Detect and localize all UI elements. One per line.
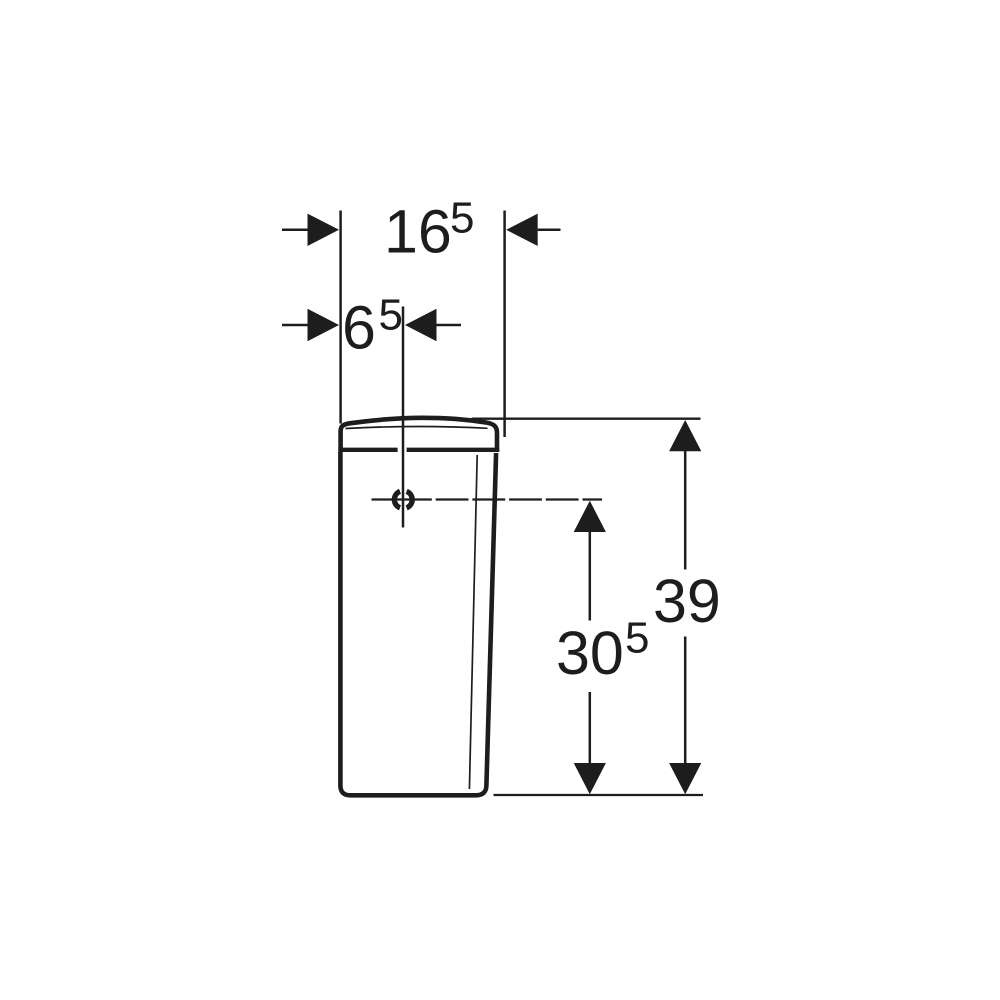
cistern body outline [340, 452, 496, 795]
dim 30.5: top arrowhead (up) [574, 501, 606, 532]
svg-text:5: 5 [450, 194, 474, 243]
dim 16.5: right arrowhead [506, 214, 538, 246]
cistern lid bottom edge right segment [407, 448, 500, 452]
svg-text:39: 39 [653, 567, 721, 635]
dim 6.5: left arrow tail [282, 324, 308, 327]
svg-text:5: 5 [379, 291, 403, 340]
dim 6.5: left arrowhead [308, 309, 340, 341]
dim 16.5: right arrow tail [538, 229, 561, 232]
hole centerline horizontal solid left part [372, 498, 400, 500]
hole centerline horizontal solid right part [584, 498, 603, 500]
svg-text:30: 30 [556, 619, 624, 687]
svg-text:16: 16 [384, 197, 452, 265]
dim 39: top arrowhead (up) [669, 420, 701, 451]
bottom reference baseline [494, 794, 704, 796]
supply hole circle (right arc) [407, 491, 413, 507]
dim 30.5: lower line segment [589, 692, 592, 765]
dim 39: upper line segment [684, 450, 687, 569]
hole centerline horizontal dashed middle [399, 498, 584, 500]
svg-text:6: 6 [342, 293, 376, 361]
svg-text:5: 5 [625, 614, 649, 663]
cistern lid bottom edge left segment [338, 448, 397, 452]
cistern body inner right contour [469, 455, 477, 789]
dim 6.5: right arrowhead [405, 309, 437, 341]
dim 39: bottom arrowhead (down) [669, 763, 701, 794]
extension line left (shared by 16.5 and 6.5) [339, 211, 342, 424]
dim 16.5: left arrow tail [282, 229, 308, 232]
cistern lid outline [341, 418, 497, 452]
supply hole circle (left arc) [394, 491, 400, 507]
dim 30.5: bottom arrowhead (down) [574, 763, 606, 794]
extension line right of 16.5 [503, 211, 506, 438]
dim 30.5: upper line segment [589, 531, 592, 621]
dim 16.5: left arrowhead [308, 214, 340, 246]
dim 39: lower line segment [684, 637, 687, 765]
centerline of supply hole (right edge of 6.5) [402, 307, 405, 528]
top reference line for dim 39 [472, 418, 701, 420]
dim 6.5: right arrow tail [437, 324, 462, 327]
cistern lid inner contour [346, 426, 488, 428]
